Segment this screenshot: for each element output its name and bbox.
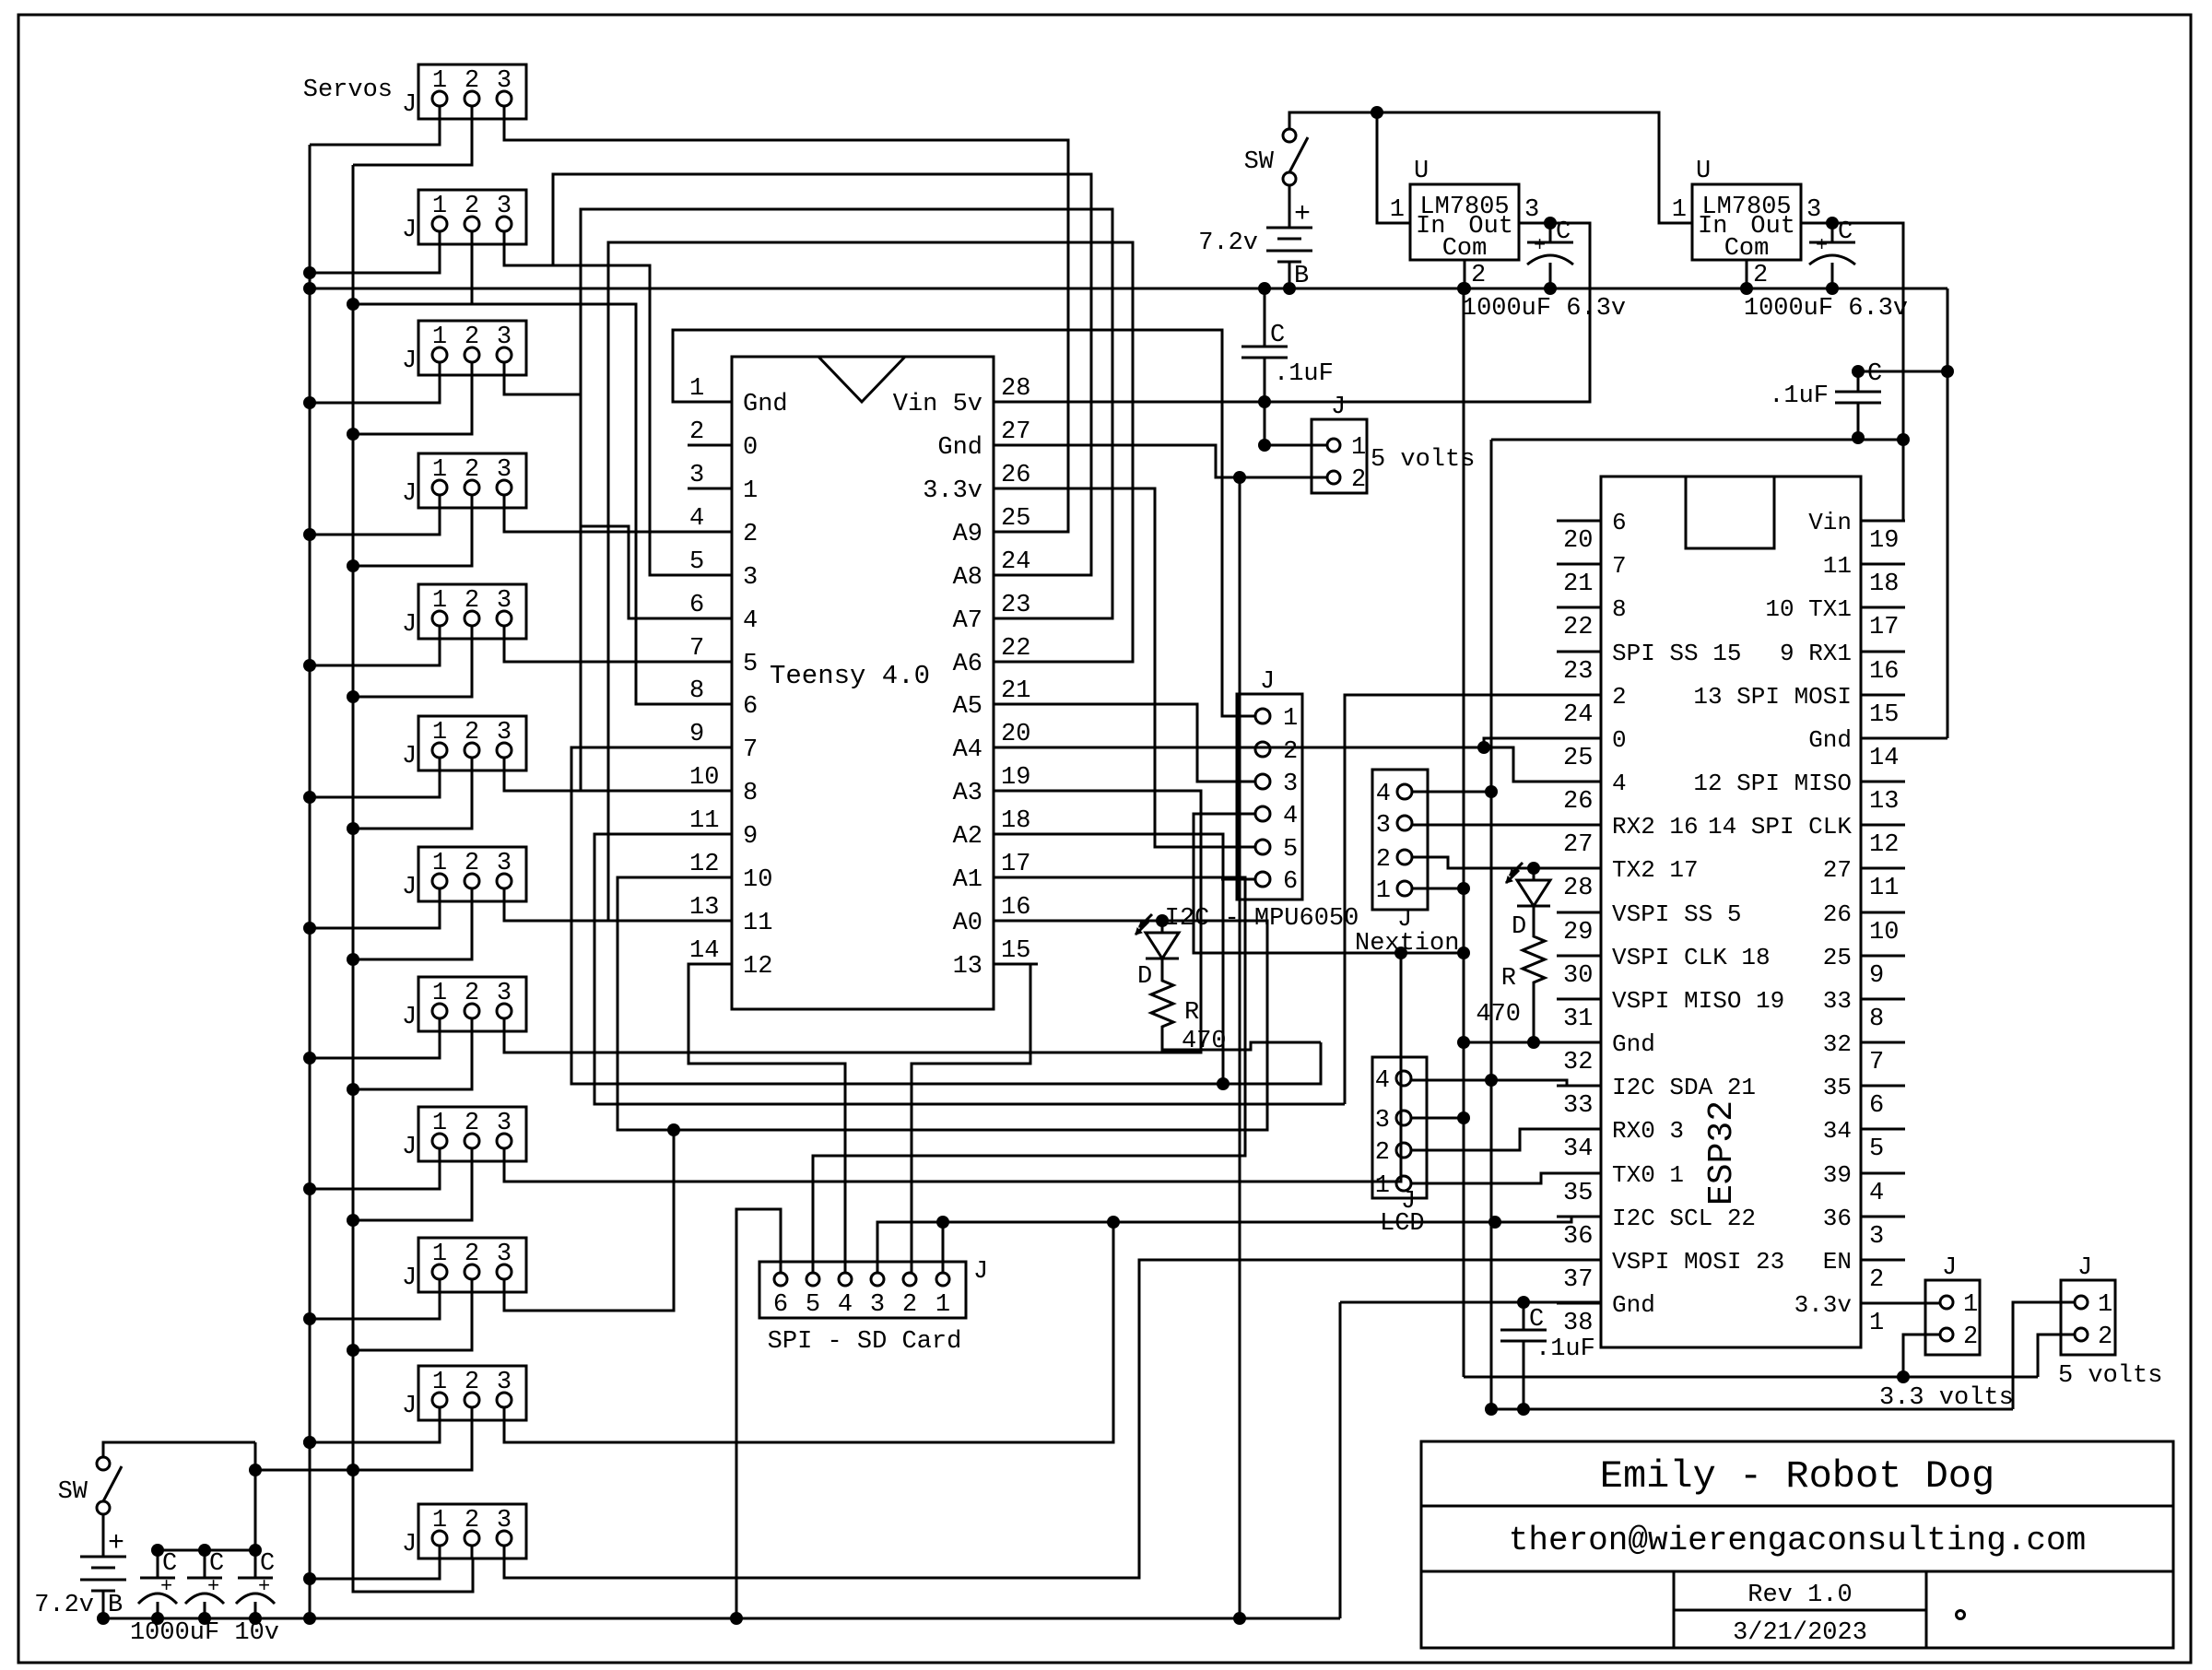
svg-text:3.3v: 3.3v (923, 477, 982, 505)
svg-text:Servos: Servos (303, 76, 393, 104)
ESP32 pin 10 26 (1861, 911, 1905, 914)
ESP32 pin 5 34 (1861, 1128, 1905, 1131)
svg-text:A6: A6 (953, 651, 982, 678)
svg-text:6: 6 (689, 592, 704, 619)
Teensy pin 3 1 (688, 488, 732, 490)
svg-text:SPI - SD Card: SPI - SD Card (768, 1328, 962, 1356)
ESP32 pin 11 27 (1861, 867, 1905, 870)
wire U1 Com to ground (1464, 260, 1466, 288)
svg-text:3: 3 (870, 1291, 885, 1319)
wire R2 to Gnd row (1533, 988, 1535, 1042)
wire SD card pin1 riser (942, 1222, 945, 1274)
wire Teensy pin15 to SD card pin2 (912, 964, 1030, 1274)
svg-text:9 RX1: 9 RX1 (1780, 640, 1852, 667)
svg-text:A3: A3 (953, 780, 982, 807)
ESP32 pin 21 7 (1557, 563, 1601, 566)
svg-text:2: 2 (2098, 1323, 2112, 1351)
wire MPU pin4 to gnd trunk (1194, 814, 1464, 953)
svg-text:2: 2 (1351, 466, 1366, 494)
svg-text:12: 12 (743, 953, 772, 981)
svg-text:A4: A4 (953, 736, 982, 764)
mcu Teensy 4.0 (732, 357, 994, 1009)
svg-text:D: D (1512, 913, 1526, 941)
svg-text:D: D (1137, 963, 1152, 991)
svg-text:23: 23 (1001, 592, 1030, 619)
svg-text:C: C (209, 1550, 224, 1578)
svg-text:26: 26 (1563, 788, 1593, 816)
ESP32 pin 19 Vin (1861, 520, 1905, 523)
wire riser A7 feed (581, 209, 1112, 790)
svg-text:3: 3 (1869, 1223, 1884, 1251)
svg-text:A1: A1 (953, 866, 982, 894)
svg-text:Rev 1.0: Rev 1.0 (1747, 1582, 1852, 1609)
svg-text:I2C SCL 22: I2C SCL 22 (1612, 1205, 1756, 1232)
svg-text:J: J (402, 743, 417, 770)
wire servo4 pin2 to power bus (353, 494, 472, 566)
wire servo6 pin1 to ground bus (310, 757, 440, 797)
svg-text:32: 32 (1563, 1049, 1593, 1076)
svg-text:.1uF: .1uF (1535, 1335, 1595, 1363)
svg-text:6: 6 (1612, 509, 1627, 536)
svg-text:B: B (1294, 263, 1309, 290)
Teensy pin 8 6 (688, 703, 732, 706)
svg-text:Gnd: Gnd (1612, 1291, 1655, 1319)
wire servo9 pin1 to ground bus (310, 1147, 440, 1189)
svg-text:R: R (1184, 999, 1199, 1027)
Teensy pin 21 A5 (994, 703, 1038, 706)
svg-text:1: 1 (1869, 1310, 1884, 1337)
svg-text:34: 34 (1823, 1117, 1852, 1145)
ESP32 pin 33 I2C SDA 21 (1557, 1085, 1601, 1088)
svg-text:ESP32: ESP32 (1702, 1100, 1742, 1205)
svg-text:Gnd: Gnd (1808, 726, 1852, 754)
connector J servo 2 (418, 190, 526, 244)
wire LCD pin3 to gnd trunk (1411, 1117, 1464, 1120)
wire servo7 pin2 to power bus (353, 888, 472, 959)
svg-text:13: 13 (689, 894, 719, 922)
wire U2 Out to ESP32 Vin (1801, 223, 1903, 521)
connector J servo 9 (418, 1107, 526, 1161)
svg-text:18: 18 (1001, 807, 1030, 835)
wire Teensy pin9 down to row1176 (571, 747, 1321, 1084)
mcu ESP32 (1601, 476, 1861, 1347)
svg-text:37: 37 (1563, 1266, 1593, 1294)
ESP32 pin 7 32 (1861, 1041, 1905, 1044)
svg-text:+: + (258, 1575, 270, 1598)
svg-text:27: 27 (1001, 418, 1030, 446)
svg-text:theron@wierengaconsulting.com: theron@wierengaconsulting.com (1509, 1522, 2087, 1559)
wire Nextion pin1 to gnd trunk (1412, 888, 1464, 890)
svg-text:5: 5 (806, 1291, 820, 1319)
svg-text:2: 2 (1283, 738, 1298, 766)
svg-text:In: In (1698, 213, 1727, 241)
switch SW bottom (97, 1457, 110, 1470)
svg-text:3/21/2023: 3/21/2023 (1733, 1619, 1867, 1647)
wire power bus2 x=383 (353, 165, 473, 1592)
resistor R1 470 (1151, 975, 1173, 1032)
svg-text:+: + (1534, 234, 1546, 257)
svg-text:7: 7 (743, 736, 758, 764)
svg-text:33: 33 (1563, 1092, 1593, 1120)
svg-text:6: 6 (773, 1291, 788, 1319)
wire ground rail right drop (1947, 288, 1949, 738)
ESP32 pin 27 RX2 16 (1557, 824, 1601, 827)
ESP32 pin 29 VSPI SS 5 (1557, 911, 1601, 914)
svg-text:30: 30 (1563, 962, 1593, 990)
ESP32 pin 17 10 TX1 (1861, 606, 1905, 609)
Teensy pin 28 Vin 5v (994, 401, 1038, 404)
svg-text:SPI SS 15: SPI SS 15 (1612, 640, 1741, 667)
Teensy pin 24 A8 (994, 574, 1038, 577)
svg-text:22: 22 (1001, 635, 1030, 663)
svg-text:28: 28 (1001, 375, 1030, 403)
svg-text:1: 1 (2098, 1291, 2112, 1319)
svg-text:3: 3 (689, 462, 704, 489)
connector J LCD (1372, 1057, 1427, 1198)
svg-text:13 SPI MOSI: 13 SPI MOSI (1693, 683, 1852, 711)
capacitor .1uF #3 (1852, 365, 1865, 378)
svg-text:VSPI SS 5: VSPI SS 5 (1612, 900, 1741, 928)
svg-text:10: 10 (743, 866, 772, 894)
wire 3.3vJ pin2 to ground (1903, 1335, 1940, 1377)
svg-text:J: J (402, 1134, 417, 1161)
wire servo8 pin3 signal to Teensy A3 (504, 791, 1201, 1053)
svg-text:5: 5 (689, 548, 704, 576)
capacitor 1000uF 10v x171 (157, 1550, 159, 1578)
connector J 5 volts bottom (2061, 1280, 2115, 1355)
wire SW to rail y122 (1289, 112, 1692, 223)
wire Teensy A2 riser (994, 834, 1223, 1084)
svg-text:U: U (1414, 158, 1429, 185)
svg-text:1000uF 6.3v: 1000uF 6.3v (1744, 295, 1908, 323)
Teensy pin 15 13 (994, 963, 1038, 966)
svg-text:1000uF 10v: 1000uF 10v (130, 1619, 279, 1647)
svg-text:27: 27 (1563, 831, 1593, 859)
svg-text:RX0 3: RX0 3 (1612, 1117, 1684, 1145)
regulator U1 LM7805 (1410, 184, 1519, 260)
svg-text:Vin: Vin (1808, 509, 1852, 536)
svg-text:13: 13 (1869, 788, 1899, 816)
svg-text:22: 22 (1563, 614, 1593, 641)
svg-text:17: 17 (1001, 851, 1030, 878)
svg-text:1000uF 6.3v: 1000uF 6.3v (1462, 295, 1626, 323)
wire servo1 pin2 to power bus (353, 105, 472, 165)
svg-text:35: 35 (1563, 1180, 1593, 1207)
wire Teensy pin11 down to row1198 (594, 834, 1345, 1104)
svg-text:A2: A2 (953, 823, 982, 851)
wire ground bus1 x=336 (309, 145, 312, 1618)
svg-text:J: J (973, 1258, 988, 1286)
wire servo7 pin1 to ground bus (310, 888, 440, 928)
Teensy pin 25 A9 (994, 531, 1038, 534)
svg-text:1: 1 (1375, 1172, 1390, 1200)
Teensy pin 7 5 (688, 661, 732, 664)
svg-text:EN: EN (1823, 1248, 1852, 1276)
svg-text:J: J (402, 217, 417, 244)
svg-text:14: 14 (689, 937, 719, 965)
ESP32 notch (1686, 476, 1774, 548)
ESP32 pin 20 6 (1557, 520, 1601, 523)
svg-text:15: 15 (1869, 701, 1899, 729)
connector J servo 8 (418, 977, 526, 1031)
svg-text:20: 20 (1563, 527, 1593, 555)
svg-text:10: 10 (1869, 919, 1899, 947)
svg-text:VSPI MOSI 23: VSPI MOSI 23 (1612, 1248, 1784, 1276)
wire ground trunk x1345 (1239, 477, 1241, 1618)
svg-text:C: C (1556, 218, 1571, 246)
ESP32 pin 18 11 (1861, 563, 1905, 566)
svg-text:2: 2 (1612, 683, 1627, 711)
Teensy pin 17 A1 (994, 876, 1038, 879)
svg-text:.1uF: .1uF (1769, 382, 1829, 410)
svg-text:7: 7 (689, 635, 704, 663)
wire 5vJ pin1 tap (1264, 402, 1266, 445)
svg-text:4: 4 (1376, 781, 1391, 808)
ESP32 pin 22 8 (1557, 606, 1601, 609)
svg-text:1: 1 (1376, 877, 1391, 905)
wire ground bottom riser (1339, 1302, 1342, 1618)
connector J servo 11 (418, 1366, 526, 1420)
title block (1421, 1441, 2173, 1648)
capacitor 1000uF 10v x222 (204, 1550, 206, 1578)
battery B1 7.2v (1288, 185, 1291, 228)
wire servo5 pin2 to power bus (353, 625, 472, 697)
svg-text:J: J (1331, 394, 1346, 421)
svg-text:2: 2 (743, 521, 758, 548)
svg-text:39: 39 (1823, 1161, 1852, 1189)
svg-text:8: 8 (1612, 595, 1627, 623)
wire ground bottom bus (103, 1617, 1340, 1620)
svg-text:4: 4 (689, 505, 704, 533)
svg-text:8: 8 (689, 677, 704, 705)
svg-text:6: 6 (1283, 868, 1298, 896)
Teensy pin 23 A7 (994, 617, 1038, 620)
svg-text:7: 7 (1612, 552, 1627, 580)
svg-text:26: 26 (1823, 900, 1852, 928)
svg-text:1: 1 (935, 1291, 950, 1319)
svg-text:24: 24 (1563, 701, 1593, 729)
svg-text:2: 2 (1963, 1323, 1978, 1351)
svg-text:35: 35 (1823, 1074, 1852, 1101)
svg-text:0: 0 (1612, 726, 1627, 754)
svg-text:27: 27 (1823, 856, 1852, 884)
wire servo7 pin3 signal to Teensy pin13 (504, 888, 732, 921)
wire servo4 pin3 signal to Teensy pin4 (504, 494, 732, 532)
wire ESP32 pin25 jog (1484, 738, 1601, 747)
wire Nextion pin3 to ESP32 pin27 (1412, 824, 1601, 827)
wire row1326 SD card pin3 to ESP32 pin36 (877, 1217, 1601, 1274)
ESP32 pin 35 TX0 1 (1557, 1172, 1601, 1175)
svg-text:5: 5 (743, 651, 758, 678)
wire LCD pin2 to ESP32 pin34 (1411, 1129, 1601, 1150)
svg-text:12: 12 (689, 851, 719, 878)
connector J servo 12 (418, 1504, 526, 1558)
wire LCD pin4 to ESP32 pin33 (1411, 1080, 1601, 1086)
ESP32 pin 31 VSPI MISO 19 (1557, 998, 1601, 1001)
svg-text:C: C (260, 1550, 275, 1578)
svg-text:C: C (1838, 218, 1853, 246)
svg-text:10: 10 (689, 764, 719, 792)
svg-text:1: 1 (1390, 196, 1405, 224)
svg-text:12 SPI MISO: 12 SPI MISO (1693, 770, 1852, 797)
ESP32 pin 36 I2C SCL 22 (1557, 1216, 1601, 1218)
svg-text:5 volts: 5 volts (2058, 1362, 2162, 1390)
wire servo11 pin3 signal (504, 1222, 1113, 1442)
svg-text:+: + (108, 1528, 124, 1559)
Teensy pin 11 9 (688, 833, 732, 836)
wire servo8 pin1 to ground bus (310, 1017, 440, 1058)
svg-text:3: 3 (1524, 196, 1539, 224)
wire servo1 pin3 signal (504, 105, 1068, 532)
Teensy pin 26 3.3v (994, 488, 1038, 490)
connector J servo 5 (418, 584, 526, 639)
connector J I2C - MPU6050 (1237, 694, 1302, 900)
wire SW2 top (103, 1442, 255, 1457)
svg-text:J: J (402, 91, 417, 119)
wire ESP32 pin14 Gnd to ground trunk (1861, 737, 1947, 740)
ESP32 pin 34 RX0 3 (1557, 1128, 1601, 1131)
svg-text:4: 4 (838, 1291, 853, 1319)
svg-text:18: 18 (1869, 570, 1899, 598)
wire servo3 pin2 to power bus (353, 361, 472, 434)
svg-text:8: 8 (1869, 1006, 1884, 1033)
svg-text:16: 16 (1001, 894, 1030, 922)
svg-text:VSPI MISO 19: VSPI MISO 19 (1612, 987, 1784, 1015)
svg-text:1: 1 (1351, 434, 1366, 462)
regulator U2 LM7805 (1692, 184, 1801, 260)
svg-text:VSPI CLK 18: VSPI CLK 18 (1612, 944, 1771, 971)
wire caps top bus (158, 1549, 255, 1552)
wire SW2 feed to power bus (254, 1442, 257, 1550)
svg-text:A8: A8 (953, 564, 982, 592)
svg-text:3: 3 (743, 564, 758, 592)
svg-text:26: 26 (1001, 462, 1030, 489)
led D1 (1156, 914, 1169, 927)
svg-text:17: 17 (1869, 614, 1899, 641)
wire 5v row477 (1491, 439, 1903, 441)
svg-text:32: 32 (1823, 1030, 1852, 1058)
wire servo6 pin2 to power bus (353, 757, 472, 829)
title block dot (1955, 1609, 1966, 1620)
svg-text:25: 25 (1823, 944, 1852, 971)
svg-text:1: 1 (743, 477, 758, 505)
capacitor 1000uF 6.3v #1 (1549, 223, 1552, 242)
svg-text:470: 470 (1476, 1001, 1521, 1029)
wire Nextion pin4 to 5v trunk (1412, 791, 1491, 794)
svg-text:A0: A0 (953, 910, 982, 937)
wire ESP32 3.3v to J pin1 (1861, 1302, 1940, 1305)
connector J servo 4 (418, 453, 526, 508)
wire Teensy A0 row (1038, 920, 1267, 923)
svg-text:9: 9 (743, 823, 758, 851)
svg-text:J: J (402, 347, 417, 375)
svg-text:Teensy 4.0: Teensy 4.0 (770, 661, 930, 691)
wire servo8 pin2 to power bus (353, 1017, 472, 1089)
svg-text:2: 2 (902, 1291, 917, 1319)
svg-text:J: J (1260, 668, 1275, 696)
ESP32 pin 38 Gnd (1557, 1302, 1601, 1305)
wire gnd trunk x1588 (1463, 288, 1465, 1377)
wire Teensy A4 to MPU6050 pin2 and ESP32 pin26 (1038, 747, 1601, 782)
Teensy pin 5 3 (688, 574, 732, 577)
svg-text:1: 1 (1963, 1291, 1978, 1319)
connector J 5 volts top (1312, 419, 1367, 493)
svg-text:LCD: LCD (1380, 1210, 1425, 1238)
wire U2 Com to ground (1746, 260, 1748, 288)
svg-text:A5: A5 (953, 693, 982, 721)
Teensy pin 18 A2 (994, 833, 1038, 836)
svg-text:4: 4 (1869, 1180, 1884, 1207)
svg-text:13: 13 (953, 953, 982, 981)
svg-text:J: J (402, 874, 417, 901)
wire servo10 pin2 to power bus (353, 1278, 472, 1350)
wire servo3 pin1 to ground bus (310, 361, 440, 403)
wire SD card pin6 to ground bus (736, 1209, 781, 1618)
svg-text:4: 4 (743, 607, 758, 635)
svg-text:34: 34 (1563, 1135, 1593, 1163)
svg-text:14: 14 (1869, 745, 1899, 772)
svg-text:9: 9 (689, 721, 704, 748)
wire U1 Out (1519, 222, 1590, 225)
wire servo6 pin3 signal to Teensy pin10 (504, 757, 732, 791)
wire R1 to riser (1162, 1032, 1321, 1050)
ESP32 pin 28 TX2 17 (1557, 867, 1601, 870)
ESP32 pin 14 Gnd (1861, 737, 1905, 740)
svg-text:5 volts: 5 volts (1371, 446, 1475, 474)
connector J servo 1 (418, 65, 526, 119)
Teensy pin 19 A3 (994, 790, 1038, 793)
capacitor C .1uF #4 (1517, 1296, 1530, 1309)
wire row1254 SD card pin5 to Teensy A1 (813, 877, 1245, 1274)
svg-text:15: 15 (1001, 937, 1030, 965)
wire servo9 pin3 signal (504, 953, 1401, 1182)
ESP32 pin 2 EN (1861, 1259, 1905, 1262)
ESP32 pin 3 36 (1861, 1216, 1905, 1218)
svg-text:33: 33 (1823, 987, 1852, 1015)
svg-text:28: 28 (1563, 875, 1593, 902)
ESP32 pin 13 12 SPI MISO (1861, 781, 1905, 783)
wire servo3 pin3 signal (504, 361, 581, 394)
svg-text:Emily - Robot Dog: Emily - Robot Dog (1600, 1454, 1994, 1499)
wire servo4 pin1 to ground bus (310, 494, 440, 535)
svg-text:16: 16 (1869, 658, 1899, 686)
svg-text:J: J (2077, 1254, 2092, 1282)
wire ground row y1494 (1464, 1376, 2038, 1379)
ESP32 pin 25 0 (1557, 737, 1601, 740)
connector J servo 10 (418, 1238, 526, 1292)
connector J servo 7 (418, 847, 526, 901)
svg-text:5: 5 (1869, 1135, 1884, 1163)
wire Teensy A5 to MPU6050 pin3 (1038, 704, 1255, 782)
svg-text:C: C (1529, 1306, 1544, 1334)
svg-text:+: + (160, 1575, 172, 1598)
svg-text:0: 0 (743, 434, 758, 462)
Teensy pin 2 0 (688, 444, 732, 447)
wire Teensy pin8 riser (473, 304, 732, 704)
svg-text:5: 5 (1283, 836, 1298, 864)
node ground rail y313 (310, 288, 1947, 290)
capacitor C .1uF #1 (1258, 282, 1271, 295)
wire ESP32 pin24 row (1345, 695, 1601, 1104)
ESP32 pin 23 SPI SS 15 (1557, 651, 1601, 653)
svg-text:+: + (207, 1575, 219, 1598)
svg-text:J: J (402, 611, 417, 639)
svg-text:38: 38 (1563, 1310, 1593, 1337)
svg-text:1: 1 (1672, 196, 1687, 224)
wire servo12 pin3 signal to ESP32 pin37 (504, 1260, 1601, 1578)
wire LCD pin1 to ESP32 pin35 (1411, 1173, 1601, 1183)
svg-text:12: 12 (1869, 831, 1899, 859)
